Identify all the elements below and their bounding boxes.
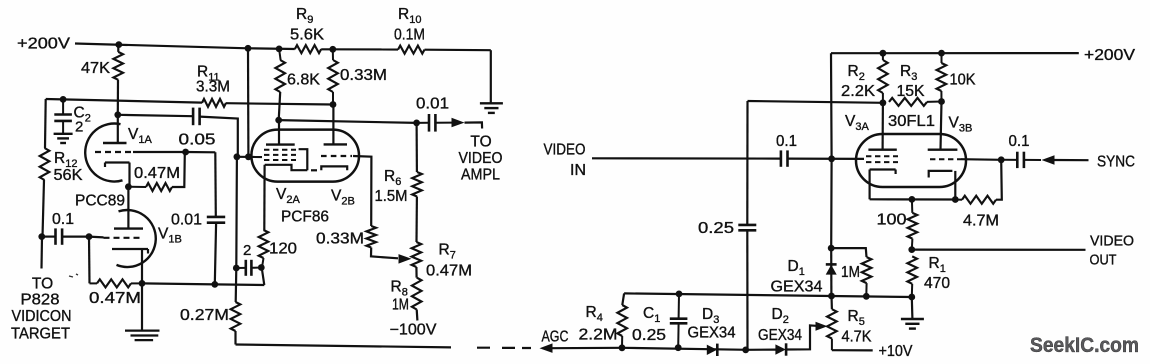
label VIDEO IN [544, 142, 587, 180]
svg-text:VIDICON: VIDICON [12, 308, 72, 325]
label 0.47M upper [134, 165, 180, 182]
svg-text:6.8K: 6.8K [287, 72, 321, 89]
svg-text:0.01: 0.01 [416, 96, 449, 113]
label 0.33M top [340, 67, 387, 84]
label V1B [158, 226, 182, 246]
node +200V left supply label [17, 36, 70, 53]
svg-text:SeekIC.com: SeekIC.com [1030, 333, 1139, 357]
junction C1 bottom [675, 344, 682, 351]
capacitor 0.25 (AGC keying) body [738, 225, 756, 230]
svg-text:100: 100 [877, 212, 907, 229]
junction bus/1M [863, 293, 870, 300]
wire R3 right lead [927, 101, 942, 103]
label 4.7M [963, 213, 999, 230]
label PCF86 [281, 209, 329, 226]
label R1 [929, 255, 946, 275]
triode V1A envelope arc [85, 124, 122, 182]
junction R11-line/C2 [60, 96, 67, 103]
svg-text:56K: 56K [54, 167, 84, 184]
wire 0.01 cap to cathode wire [215, 223, 216, 285]
label 1M grid [841, 264, 860, 281]
label V2B [331, 188, 355, 208]
label 0.33M mid [316, 231, 364, 248]
wire +200V rail (right) [831, 52, 1079, 54]
resistor 0.47M (V1A) body [130, 152, 185, 191]
label 100 [877, 212, 907, 229]
triode V1B grid (dashed) [104, 237, 143, 239]
wire V1A plate to 0.05 cap [118, 115, 193, 116]
label 10K [950, 72, 977, 89]
svg-text:47K: 47K [81, 60, 111, 77]
label GEX34 D1 [771, 279, 823, 296]
junction R1 bottom [908, 294, 915, 301]
label R9 [296, 6, 313, 26]
double-triode V3 envelope [856, 134, 966, 187]
pentode V2 cathode structure [265, 149, 348, 170]
wire rail corner down to ground [490, 50, 492, 103]
junction V1A cathode node [125, 183, 132, 190]
resistor 0.33M (screen) body [328, 49, 338, 104]
label 6.8K [287, 72, 321, 89]
svg-text:GEX34: GEX34 [771, 279, 823, 296]
wire R5 bottom to +10V [832, 349, 873, 351]
svg-text:−100V: −100V [390, 322, 438, 339]
junction cathode bus/4.7M [952, 196, 959, 203]
label 0.25 C1 [632, 327, 666, 344]
wire V1B cathode bus [142, 283, 264, 285]
label R6 [384, 168, 401, 188]
triode V1A plate [103, 115, 127, 143]
arrow R7 wiper [399, 254, 412, 264]
junction V2B plate/R11 line [330, 101, 337, 108]
junction D1 top [828, 245, 835, 252]
wire V3 cathode bus [870, 198, 956, 200]
capacitor C2 2uF [54, 99, 72, 133]
resistor R6 1.5M body [412, 172, 422, 197]
svg-text:1M: 1M [392, 297, 409, 314]
wire x237 column (V2A grid to 0.27M) [236, 157, 237, 302]
capacitor 0.1 (left) body [56, 228, 63, 244]
junction V1B cathode/ground [139, 280, 146, 287]
resistor R4 2.2M body [617, 293, 627, 347]
capacitor 2 body [246, 260, 252, 276]
junction bottom/0.25 column [742, 347, 749, 354]
label 15K [897, 83, 926, 100]
junction rail/6.8K [276, 46, 283, 53]
svg-text:AGC: AGC [542, 329, 569, 346]
wire V3A grid column (rail corner down) [830, 53, 833, 248]
wire V3B grid exit [961, 158, 1001, 161]
svg-text:5.6K: 5.6K [290, 27, 325, 44]
capacitor 0.1 (video in) body [781, 150, 788, 166]
label R8 [391, 279, 408, 299]
wire VIDEO IN line [592, 157, 864, 160]
svg-text:10K: 10K [950, 72, 977, 89]
capacitor 0.01 (output) body [429, 114, 435, 132]
wire 4.7M to sync node [996, 160, 1002, 200]
label 0.1M [394, 27, 425, 44]
svg-text:GEX34: GEX34 [688, 325, 736, 342]
resistor 10K body [937, 53, 947, 101]
svg-text:4.7M: 4.7M [963, 213, 999, 230]
svg-text:1M: 1M [841, 264, 860, 281]
svg-text:0.25: 0.25 [632, 327, 666, 344]
label SYNC [1097, 154, 1135, 171]
wire sync cap leads [1001, 159, 1041, 161]
svg-text:0.47M: 0.47M [89, 290, 141, 307]
wire 0.01line cap leads [417, 122, 452, 124]
label 1M R8 [392, 297, 409, 314]
label D1 [788, 258, 805, 278]
svg-text:2.2K: 2.2K [841, 83, 876, 100]
wire 0.01-output line [279, 120, 417, 123]
wire V2A control grid lead [237, 156, 263, 158]
junction V2A plate/0.01 line [275, 117, 282, 124]
wire anode feed line [748, 101, 883, 103]
label 4.7K [842, 329, 873, 346]
label TO P828 VIDICON TARGET [11, 276, 72, 343]
label R4 [586, 304, 603, 324]
triode V3B plate [928, 148, 958, 150]
resistor R2 2.2K body [878, 53, 888, 103]
pentode V2A grids (3 dashed rows) [264, 150, 296, 160]
label V3B [949, 115, 973, 135]
label VIDEO OUT [1090, 234, 1135, 269]
resistor R5 4.7K body (pot) [827, 296, 837, 350]
ground (below R1) [901, 319, 924, 329]
triode V3A plate [868, 148, 896, 150]
junction video-in/V3A grid column [828, 155, 835, 162]
label R12 [54, 150, 77, 170]
label R11 [197, 64, 220, 84]
label D3 [702, 306, 719, 326]
svg-text:0.05: 0.05 [179, 132, 216, 149]
resistor 1M (grid leak) body [862, 257, 872, 296]
label 0.47M R7 [426, 263, 472, 280]
wire arrow to corner tick [465, 122, 483, 128]
svg-text:0.1: 0.1 [52, 211, 74, 228]
triode V1A grid (dashed) [95, 151, 133, 153]
label 30FL1 [888, 113, 935, 130]
wire cathode to ground [141, 283, 143, 330]
label TO VIDEO AMPL [459, 134, 503, 184]
resistor R9 body [295, 45, 321, 53]
junction 0.1/V1B grid [86, 233, 93, 240]
resistor R11 3.3M body [202, 99, 226, 107]
wire V1A grid line [133, 151, 215, 154]
label AGC [542, 329, 569, 346]
triode V3B cathode [929, 171, 956, 200]
resistor 47K (plate load V1A) [113, 45, 123, 115]
junction grid/0.47M [182, 149, 189, 156]
resistor 120 body [259, 230, 269, 268]
arrow SYNC (points left) [1042, 155, 1055, 165]
svg-text:0.25: 0.25 [698, 220, 734, 237]
triode V2B grid (dashed) [321, 155, 352, 157]
label R5 [848, 308, 865, 328]
svg-text:TO: TO [32, 276, 53, 293]
junction sync line/4.7M [998, 156, 1005, 163]
resistor R8 1M body [412, 278, 422, 310]
svg-text:TO: TO [470, 134, 491, 151]
label 2.2K [841, 83, 876, 100]
label 5.6K [290, 27, 325, 44]
wire x248 column (rail to V2A grid) [247, 48, 250, 157]
svg-text:0.1M: 0.1M [394, 27, 425, 44]
svg-text:0.47M: 0.47M [134, 165, 180, 182]
wire 0.33M to R7 wiper [371, 248, 398, 259]
wire left column (R12 branch) [42, 99, 46, 269]
junction 2cap/x237 column [233, 265, 240, 272]
svg-text:AMPL: AMPL [461, 167, 500, 184]
label 0.01 output [416, 96, 449, 113]
label 3.3M [196, 79, 230, 96]
label GEX34 D3 [688, 325, 736, 342]
label 0.1 video in [776, 133, 797, 150]
wire bottom AGC line solid left [236, 345, 452, 348]
wire 2cap left lead [236, 267, 246, 269]
svg-text:GEX34: GEX34 [758, 327, 802, 344]
svg-text:OUT: OUT [1090, 253, 1117, 269]
svg-text:2: 2 [243, 242, 251, 259]
diode D3 GEX34 (pointing right) [707, 344, 718, 356]
pentode-triode V2 envelope [251, 130, 359, 182]
capacitor 0.01 (left) body [207, 217, 225, 223]
label 0.1 left [52, 211, 74, 228]
label PCC89 [75, 193, 125, 210]
ground chassis below C2 [54, 134, 73, 143]
label 2.2M [579, 327, 618, 344]
resistor 0.47M (V1B) body [90, 279, 143, 287]
diode D1 GEX34 (vertical, pointing up) [826, 264, 837, 274]
label -100V [390, 322, 438, 339]
svg-text:2.2M: 2.2M [579, 327, 618, 344]
label 56K [54, 167, 84, 184]
junction rail/47K [115, 41, 122, 48]
svg-text:PCC89: PCC89 [75, 193, 125, 210]
svg-text:2: 2 [75, 119, 83, 136]
label 1.5M [375, 188, 408, 205]
wire V2B grid to 0.33M corner [353, 156, 371, 226]
junction R2 bottom [880, 99, 887, 106]
triode V1B cathode [112, 249, 148, 283]
label R10 [398, 6, 421, 26]
wire D1 top tee [831, 248, 866, 296]
label +10V [879, 343, 914, 360]
svg-text:VIDEO: VIDEO [1090, 234, 1134, 250]
junction rail/R2 [880, 50, 887, 57]
label V2A [276, 186, 300, 206]
wire V2 cathode lead down [263, 165, 266, 230]
wire D2 to R5 wiper corner [786, 325, 816, 349]
wire R8 bottom lead [416, 310, 419, 321]
ground (top, after R10) [480, 103, 503, 113]
arrow to video ampl [452, 118, 465, 128]
wire C1 leads [677, 294, 680, 348]
watermark SeekIC.com [1030, 333, 1139, 357]
wire VIDEO OUT line [912, 249, 1086, 251]
wire 0.05 cap to V2A grid corner [200, 117, 238, 157]
capacitor 0.05 body [193, 108, 200, 126]
junction V2A grid/x248 column [245, 153, 252, 160]
label 120 res [269, 241, 297, 258]
junction 120/2cap [258, 264, 265, 271]
junction cathode bus/100 [909, 196, 916, 203]
wire R7-R8 link [415, 267, 417, 278]
svg-text:IN: IN [570, 162, 586, 179]
resistor 0.33M (V2B bias) body [366, 226, 376, 248]
wire +200V rail (left) [75, 44, 491, 51]
label V3A [845, 113, 869, 133]
triode V1A cathode [105, 163, 130, 187]
pentode V2A plate [266, 120, 295, 145]
triode V1B plate [114, 187, 143, 229]
svg-text:0.01: 0.01 [171, 212, 202, 229]
wire bottom AGC line solid right [552, 348, 776, 350]
diode D2 GEX34 (pointing right) [775, 343, 786, 355]
label R2 [848, 63, 865, 83]
resistor R10 body [398, 46, 425, 54]
svg-text:470: 470 [924, 275, 950, 292]
label 0.47M lower [89, 290, 141, 307]
label +200V right [1084, 47, 1135, 64]
junction V2A grid/x237 column [234, 153, 241, 160]
label 2 cap [243, 242, 251, 259]
label 0.1 sync [1009, 133, 1030, 150]
capacitor 0.1 (sync) body [1017, 152, 1024, 168]
junction R3/10K bottom [938, 98, 945, 105]
resistor 0.27M body [231, 302, 241, 345]
triode V3A grids (dashed) [866, 156, 898, 162]
wire V3B plate lead [941, 102, 942, 150]
resistor R3 15K body [889, 98, 927, 106]
resistor R1 470 body [907, 256, 917, 297]
svg-text:0.33M: 0.33M [316, 231, 364, 248]
svg-text:30FL1: 30FL1 [888, 113, 935, 130]
arrow R5 wiper [816, 322, 828, 331]
wire R6-R7 link [415, 197, 418, 243]
junction rail/0.33M [329, 46, 336, 53]
svg-text:VIDEO: VIDEO [459, 150, 503, 167]
ground (below V1B) [125, 331, 160, 341]
svg-text:+200V: +200V [1084, 47, 1135, 64]
label C2 value 2 [75, 119, 83, 136]
triode V2B plate [324, 105, 347, 145]
svg-text:P828: P828 [21, 292, 60, 309]
svg-text:15K: 15K [897, 83, 926, 100]
junction vidicon/left column [38, 233, 45, 240]
svg-text:0.47M: 0.47M [426, 263, 472, 280]
resistor R12 56K body [40, 148, 50, 180]
label 470 [924, 275, 950, 292]
junction V1A plate / 0.05 line [114, 111, 121, 118]
label GEX34 D2 [758, 327, 802, 344]
triode V1B envelope arc [117, 210, 156, 267]
svg-text:0.1: 0.1 [1009, 133, 1030, 150]
wire vidicon line [43, 236, 104, 239]
label 0.05 [179, 132, 216, 149]
junction bus/C1 [676, 291, 683, 298]
resistor R7 0.47M body (pot) [412, 242, 422, 267]
wire grid-leak bus [624, 293, 912, 297]
resistor 4.7M body [955, 196, 996, 204]
label 0.25 mid [698, 220, 734, 237]
junction rail/10K [938, 50, 945, 57]
svg-text:4.7K: 4.7K [842, 329, 873, 346]
junction video out [908, 246, 915, 253]
svg-text:0.33M: 0.33M [340, 67, 387, 84]
junction cathode bus/0.01 [211, 281, 218, 288]
stray mark [69, 274, 78, 277]
label 0.01 left [171, 212, 202, 229]
wire bottom AGC dashed section [477, 347, 531, 349]
svg-text:VIDEO: VIDEO [544, 142, 586, 159]
wire 0.25 column [746, 101, 748, 350]
label D2 [772, 306, 789, 326]
svg-text:0.27M: 0.27M [180, 307, 229, 324]
label R3 [900, 63, 917, 83]
junction bus/D1-R5 [828, 293, 835, 300]
wire V3A plate lead [881, 103, 884, 150]
wire 2cap right lead [251, 267, 261, 269]
label R7 [439, 242, 456, 262]
capacitor C1 0.25 body [670, 319, 688, 324]
label 47K [81, 60, 111, 77]
wire grid corner down to 0.01 cap [214, 152, 217, 216]
wire R6 top lead [416, 123, 418, 172]
svg-text:TARGET: TARGET [11, 325, 71, 342]
triode V3A cathode [870, 170, 896, 200]
wire R11 line (V1 plate node to V2B plate node) [46, 99, 333, 105]
svg-text:SYNC: SYNC [1097, 154, 1135, 171]
junction R4 bottom [619, 344, 626, 351]
svg-text:+200V: +200V [17, 36, 70, 53]
label 0.27M [180, 307, 229, 324]
resistor 6.8K body [275, 49, 285, 120]
triode V3B grid (dashed) [930, 158, 961, 160]
svg-text:+10V: +10V [879, 343, 914, 360]
svg-text:0.1: 0.1 [776, 133, 797, 150]
wire R1 to ground [911, 297, 914, 319]
resistor 100 body [908, 199, 918, 249]
junction rail/x248 line [245, 45, 252, 52]
junction 0.01line/R6 [413, 120, 420, 127]
svg-text:PCF86: PCF86 [281, 209, 329, 226]
svg-text:120: 120 [269, 241, 297, 258]
label V1A [128, 126, 152, 146]
label C1 [643, 305, 660, 325]
svg-text:3.3M: 3.3M [196, 79, 230, 96]
svg-text:1.5M: 1.5M [375, 188, 408, 205]
arrow AGC (points left) [540, 343, 553, 353]
wire SYNC lead [1055, 159, 1089, 161]
wire 120 node down to cathode bus [262, 268, 265, 286]
label C2 [74, 105, 91, 125]
wire V1B grid down leg [88, 237, 91, 284]
